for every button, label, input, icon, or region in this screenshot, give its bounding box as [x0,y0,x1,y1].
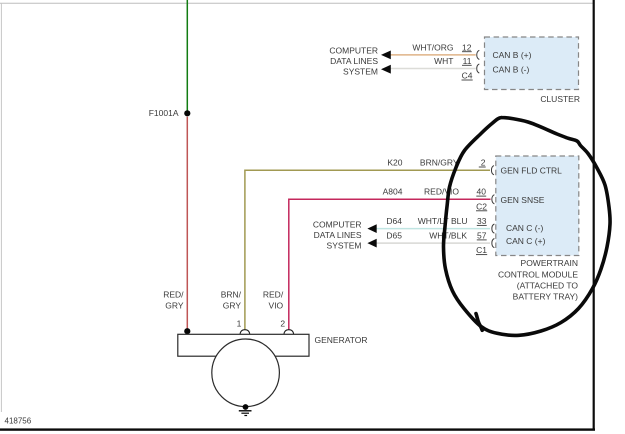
svg-text:40: 40 [477,187,487,197]
cluster module box [485,37,579,90]
svg-text:F1001A: F1001A [149,108,179,118]
svg-text:D64: D64 [386,216,402,226]
svg-text:SYSTEM: SYSTEM [343,67,378,77]
svg-text:BRN/: BRN/ [221,290,242,300]
arrow to computer data lines (CAN B -) [381,65,391,74]
svg-text:POWERTRAIN: POWERTRAIN [521,258,578,268]
wire WHT/ORG CAN B (+) [391,54,476,56]
ground at generator case [239,404,252,415]
svg-text:CAN B (-): CAN B (-) [493,65,530,75]
wire D64 WHT/LT BLU [376,228,490,230]
svg-text:SYSTEM: SYSTEM [327,240,362,250]
connector pin 40 at PCM [492,195,495,204]
svg-text:C2: C2 [476,201,487,211]
svg-text:DATA LINES: DATA LINES [330,56,378,66]
wire D65 WHT/BLK [376,242,490,244]
svg-text:57: 57 [477,231,487,241]
label connector C2 [476,201,487,211]
svg-text:11: 11 [463,56,472,66]
svg-text:RED/: RED/ [163,290,184,300]
svg-text:1: 1 [237,319,242,329]
pin 57 label at PCM [477,231,487,241]
label POWERTRAIN CONTROL MODULE [498,258,578,301]
svg-text:GEN SNSE: GEN SNSE [501,195,545,205]
wire green feed (from fuse) [186,0,188,112]
svg-text:DATA LINES: DATA LINES [314,230,362,240]
arrow to computer data lines (CAN C -) [367,224,376,233]
svg-text:CLUSTER: CLUSTER [540,94,580,104]
svg-text:12: 12 [462,42,472,52]
svg-text:COMPUTER: COMPUTER [329,46,378,56]
svg-text:RED/: RED/ [263,290,284,300]
label computer data lines system (PCM side) [313,219,362,250]
connector pin 57 at PCM [492,239,495,248]
svg-text:D65: D65 [386,231,402,241]
svg-text:GRY: GRY [165,301,184,311]
label connector C4 [462,71,473,81]
svg-text:C1: C1 [476,245,487,255]
svg-text:GEN FLD CTRL: GEN FLD CTRL [501,165,563,175]
svg-text:WHT/LT BLU: WHT/LT BLU [418,216,468,226]
svg-text:418756: 418756 [5,417,32,426]
generator G1 [178,334,309,406]
svg-text:WHT/BLK: WHT/BLK [429,231,467,241]
svg-text:WHT: WHT [434,56,453,66]
svg-text:BATTERY TRAY): BATTERY TRAY) [513,292,579,302]
svg-text:BRN/GRY: BRN/GRY [420,158,459,168]
svg-text:CAN C (+): CAN C (+) [506,236,546,246]
connector pin 12 at cluster [477,50,480,59]
junction dot at generator terminal [184,328,190,334]
svg-text:WHT/ORG: WHT/ORG [412,42,453,52]
svg-text:CONTROL MODULE: CONTROL MODULE [498,269,578,279]
arrow to computer data lines (CAN B +) [381,51,391,60]
svg-text:RED/VIO: RED/VIO [424,187,459,197]
pin 33 label at PCM [477,216,487,226]
connector pin 1 at generator [240,330,250,335]
svg-text:GRY: GRY [223,301,242,311]
hand-drawn highlight circle around PCM [443,118,610,336]
label connector C1 [476,245,487,255]
svg-text:K20: K20 [387,158,402,168]
pin 12 label [462,42,472,52]
wire A804 RED/VIO [289,199,491,330]
svg-text:GENERATOR: GENERATOR [315,335,368,345]
pin 40 label at PCM [476,187,486,197]
svg-text:33: 33 [477,216,487,226]
pin 11 label [462,56,472,66]
wire WHT CAN B (-) [391,68,476,70]
connector pin 11 at cluster [477,64,480,73]
label computer data lines system (cluster side) [329,46,378,77]
wire K20 BRN/GRY [245,170,490,330]
svg-text:2: 2 [280,319,285,329]
pin 2 label at PCM [479,158,486,168]
wire RED/GRY vertical [186,117,188,333]
connector pin 2 at PCM [491,166,494,175]
svg-text:CAN B (+): CAN B (+) [493,50,532,60]
svg-text:COMPUTER: COMPUTER [313,219,362,229]
svg-text:A804: A804 [383,187,403,197]
svg-text:2: 2 [481,158,486,168]
powertrain control module box [496,156,579,256]
svg-text:C4: C4 [462,71,473,81]
svg-text:(ATTACHED TO: (ATTACHED TO [517,280,579,290]
node F1001A [184,110,190,116]
svg-text:VIO: VIO [269,301,284,311]
svg-text:CAN C (-): CAN C (-) [506,223,543,233]
connector pin 33 at PCM [492,224,495,233]
arrow to computer data lines (CAN C +) [367,239,376,248]
connector pin 2 at generator [284,330,294,335]
